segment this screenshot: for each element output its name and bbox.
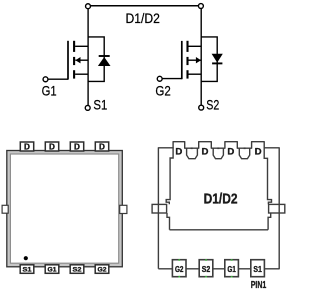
package bottom view: outline with drain lead tabs <box>158 142 279 269</box>
node: G2 terminal <box>157 76 162 81</box>
svg-text:S2: S2 <box>202 265 211 274</box>
tie bar relief 2 <box>213 148 223 159</box>
wire: Q1 drain stub to vertical <box>75 45 88 47</box>
package top view: side tab left <box>2 205 8 213</box>
Q2 gate bar <box>181 41 183 79</box>
svg-text:G2: G2 <box>155 82 171 98</box>
svg-text:G2: G2 <box>98 267 107 274</box>
wire: gate lead G2 <box>162 78 182 80</box>
wire: body diode branch D1 <box>88 37 104 82</box>
pin D (top view pin 6) <box>70 142 83 151</box>
pin G1 (top view pin 2) <box>45 265 59 274</box>
pad G2 (bottom view) <box>172 260 186 277</box>
Q1 drain channel stub <box>73 41 75 52</box>
pin S2 (top view pin 3) <box>70 265 84 274</box>
package top view: side tab right <box>120 205 127 213</box>
pin D (top view pin 8) <box>20 142 33 151</box>
pin 1 marker dot <box>24 256 28 260</box>
transistor Q1 (MOSFET 1) <box>68 8 88 105</box>
node: S1 terminal <box>85 105 90 110</box>
pin D (top view pin 5) <box>95 142 108 151</box>
D2 cathode bar <box>212 62 222 64</box>
svg-text:D: D <box>255 146 262 157</box>
Q1 body channel stub <box>73 57 75 65</box>
wire: body diode branch D2 <box>201 37 217 82</box>
tie bar relief 1 <box>187 148 198 159</box>
pad S2 (bottom view) <box>199 260 213 277</box>
tie bar relief 3 <box>239 148 249 159</box>
Q1 body arrow (points left) <box>75 57 80 63</box>
svg-text:D: D <box>74 143 80 152</box>
diode D1 (body diode, cathode up) <box>98 56 111 66</box>
svg-text:G2: G2 <box>175 265 184 274</box>
node: drain terminal left <box>86 4 91 9</box>
svg-text:D: D <box>24 143 30 152</box>
pad D1/D2: bottom edge <box>170 229 269 231</box>
tick mark gap 2 <box>217 147 219 149</box>
svg-text:S2: S2 <box>73 267 82 274</box>
pin S1 (top view pin 1) <box>20 265 34 274</box>
tick mark gap 3 <box>244 147 246 149</box>
D1 anode triangle <box>98 57 111 66</box>
svg-text:D: D <box>49 143 55 152</box>
svg-text:D: D <box>202 146 209 157</box>
tick mark gap 1 <box>191 147 193 149</box>
side wing left <box>152 204 167 213</box>
Q2 body channel stub <box>186 57 188 65</box>
side wing right <box>269 204 285 213</box>
pin G2 (top view pin 4) <box>95 265 109 274</box>
pin D (top view pin 7) <box>45 142 58 151</box>
node: S2 terminal <box>199 105 204 110</box>
package top view: body inner frame <box>10 154 118 263</box>
wire: Q1 source stub to vertical <box>75 73 88 75</box>
pad D1/D2: right edge <box>264 148 271 230</box>
package top view: body outer frame <box>7 151 123 267</box>
wire: Q1 body connection <box>75 59 88 61</box>
pad G1 (bottom view) <box>225 260 239 277</box>
transistor Q2 (MOSFET 2) <box>182 8 201 105</box>
pad S1 (bottom view) <box>251 260 265 277</box>
svg-text:D1/D2: D1/D2 <box>125 10 160 26</box>
Q2 source channel stub <box>186 70 188 78</box>
svg-text:S1: S1 <box>253 265 262 274</box>
pad D1/D2: left edge <box>166 148 173 230</box>
green tick marks on pads <box>178 259 232 277</box>
svg-text:S2: S2 <box>206 96 219 112</box>
wire: Q2 source stub to vertical <box>189 73 202 75</box>
wire: gate lead G1 <box>48 78 68 80</box>
svg-text:G1: G1 <box>48 267 57 274</box>
svg-text:D1/D2: D1/D2 <box>204 191 238 207</box>
svg-text:PIN1: PIN1 <box>251 280 267 291</box>
Q2 drain channel stub <box>186 41 188 52</box>
D2 anode triangle <box>212 54 223 63</box>
diode D2 (body diode, cathode down) <box>212 54 223 64</box>
node: G1 terminal <box>43 77 48 82</box>
svg-text:D: D <box>99 143 105 152</box>
Q1 gate bar <box>67 41 69 80</box>
svg-text:S1: S1 <box>23 267 32 274</box>
wire: Q2 drain-source vertical (rail to S2) <box>200 8 202 105</box>
svg-text:D: D <box>227 146 234 157</box>
svg-text:D: D <box>175 146 182 157</box>
wire: Q2 drain stub to vertical <box>189 45 202 47</box>
svg-text:G1: G1 <box>227 265 236 274</box>
svg-text:S1: S1 <box>93 96 107 112</box>
Q2 body arrow (points right) <box>196 57 201 63</box>
D1 cathode bar <box>99 55 110 57</box>
wire: Q2 body connection <box>189 59 202 61</box>
Q1 source channel stub <box>73 70 75 78</box>
svg-text:G1: G1 <box>42 82 57 98</box>
node: drain terminal right <box>198 4 203 9</box>
wire: common drain rail D1/D2 <box>88 5 201 7</box>
wire: Q1 drain-source vertical (rail to S1) <box>87 8 89 105</box>
